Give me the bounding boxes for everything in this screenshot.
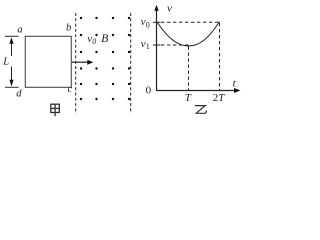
svg-text:0: 0 xyxy=(146,85,152,97)
svg-text:B: B xyxy=(101,33,108,45)
svg-text:d: d xyxy=(16,89,22,100)
svg-text:T: T xyxy=(185,92,192,104)
svg-text:L: L xyxy=(2,57,9,68)
svg-text:2T: 2T xyxy=(213,92,226,104)
svg-text:a: a xyxy=(17,24,22,35)
svg-text:v: v xyxy=(167,3,172,15)
svg-text:c: c xyxy=(68,84,73,95)
svg-text:b: b xyxy=(66,22,71,33)
